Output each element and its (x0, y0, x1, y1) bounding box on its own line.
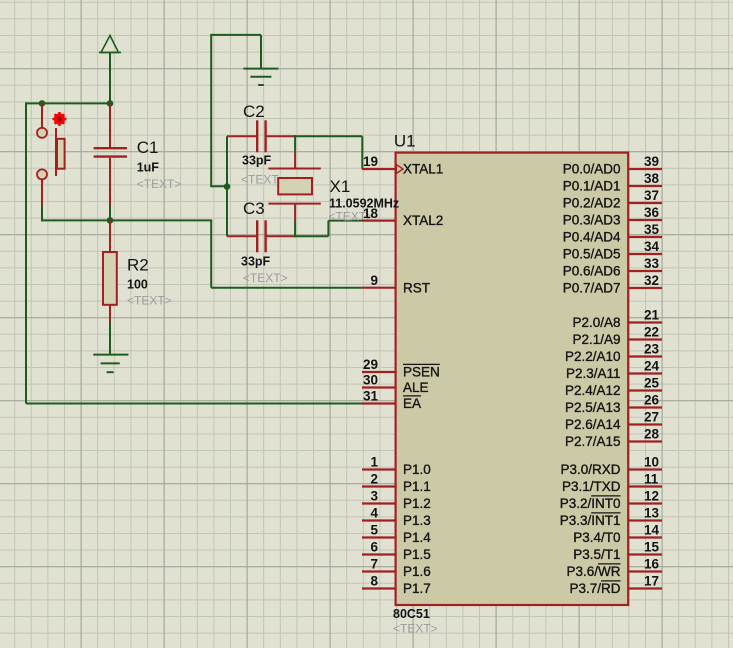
svg-text:14: 14 (644, 523, 660, 538)
svg-text:XTAL2: XTAL2 (403, 213, 443, 228)
svg-text:P0.2/AD2: P0.2/AD2 (563, 196, 621, 211)
svg-text:37: 37 (644, 188, 659, 203)
pin 27 stub (P2.6/A14) (628, 423, 662, 425)
svg-text:P3.1/TXD: P3.1/TXD (562, 479, 621, 494)
svg-text:31: 31 (363, 389, 379, 404)
svg-text:C1: C1 (137, 138, 159, 157)
pin 18 stub (XTAL2) (362, 220, 396, 222)
svg-text:P3.5/T1: P3.5/T1 (573, 547, 620, 562)
svg-text:P2.4/A12: P2.4/A12 (565, 383, 621, 398)
button contact bottom (37, 169, 47, 179)
wire left rail (EA to VCC) (25, 102, 27, 403)
power symbol VCC arrow (99, 36, 121, 104)
svg-text:P1.4: P1.4 (403, 530, 431, 545)
svg-text:RST: RST (403, 280, 430, 295)
pin 17 stub (P3.7/RD) (628, 587, 662, 589)
svg-text:11: 11 (644, 472, 659, 487)
pin 25 stub (P2.4/A12) (628, 389, 662, 391)
svg-text:P1.6: P1.6 (403, 564, 431, 579)
pin 19 stub (XTAL1) (362, 168, 396, 170)
wire rail to caps (211, 185, 228, 187)
button interactive marker (52, 112, 66, 126)
wire XTAL1 horizontal (294, 135, 362, 137)
ground symbol (R2) (93, 355, 128, 373)
svg-text:P1.7: P1.7 (403, 581, 431, 596)
svg-text:U1: U1 (394, 132, 416, 151)
svg-text:C2: C2 (243, 102, 265, 121)
pin 39 stub (P0.0/AD0) (628, 168, 662, 170)
svg-text:<TEXT>: <TEXT> (137, 177, 182, 191)
svg-text:P0.7/AD7: P0.7/AD7 (563, 281, 621, 296)
pin 19 clock arrow (396, 165, 403, 174)
pin 24 stub (P2.3/A11) (628, 372, 662, 374)
button actuator bar (55, 128, 57, 176)
svg-text:2: 2 (370, 472, 378, 487)
svg-text:P3.4/T0: P3.4/T0 (573, 530, 620, 545)
svg-text:33pF: 33pF (242, 154, 272, 168)
pin 26 stub (P2.5/A13) (628, 406, 662, 408)
pin 35 stub (P0.4/AD4) (628, 236, 662, 238)
capacitor C1 top lead (109, 103, 111, 147)
pin 31 stub (EA) (362, 402, 396, 404)
wire RST vertical (210, 220, 212, 287)
button top lead (41, 103, 43, 127)
svg-text:5: 5 (370, 523, 378, 538)
resistor R2 bottom lead (109, 305, 111, 321)
wire RST horizontal 2 (211, 287, 362, 289)
svg-text:15: 15 (644, 540, 660, 555)
pin 8 stub (P1.7) (362, 587, 396, 589)
pin 6 stub (P1.5) (362, 553, 396, 555)
svg-text:P0.4/AD4: P0.4/AD4 (563, 230, 621, 245)
pin 1 stub (P1.0) (362, 468, 396, 470)
pin 38 stub (P0.1/AD1) (628, 185, 662, 187)
capacitor C3 left lead (227, 235, 256, 237)
svg-text:<TEXT>: <TEXT> (393, 622, 438, 636)
node junction cap common (224, 183, 231, 190)
capacitor C2 left lead (227, 135, 256, 137)
svg-text:13: 13 (644, 506, 660, 521)
svg-text:P3.7/RD: P3.7/RD (569, 581, 620, 596)
svg-text:32: 32 (644, 273, 659, 288)
crystal X1 bottom plate (268, 203, 320, 205)
capacitor C3 right lead (266, 235, 295, 237)
wire XTAL2 vertical (327, 221, 329, 237)
svg-text:21: 21 (644, 308, 660, 323)
pin 12 stub (P3.2/INT0) (628, 502, 662, 504)
svg-text:23: 23 (644, 342, 660, 357)
svg-text:R2: R2 (127, 256, 149, 275)
pin 33 stub (P0.6/AD6) (628, 270, 662, 272)
pin 22 stub (P2.1/A9) (628, 338, 662, 340)
svg-text:33pF: 33pF (241, 255, 271, 269)
capacitor C2 right lead (266, 135, 295, 137)
svg-text:36: 36 (644, 205, 660, 220)
svg-text:8: 8 (370, 574, 378, 589)
ground symbol (top) (243, 69, 278, 85)
svg-text:P2.0/A8: P2.0/A8 (572, 315, 620, 330)
pin 13 stub (P3.3/INT1) (628, 519, 662, 521)
crystal X1 bottom pin (294, 204, 296, 221)
capacitor C1 plates (94, 148, 127, 156)
capacitor C3 plates (257, 220, 265, 252)
svg-text:18: 18 (363, 206, 379, 221)
svg-text:P2.3/A11: P2.3/A11 (566, 366, 621, 381)
svg-text:P1.1: P1.1 (403, 479, 431, 494)
svg-text:4: 4 (370, 506, 378, 521)
svg-text:17: 17 (644, 574, 659, 589)
svg-text:P3.6/WR: P3.6/WR (566, 564, 620, 579)
svg-text:30: 30 (363, 373, 378, 388)
svg-text:P0.3/AD3: P0.3/AD3 (563, 213, 621, 228)
svg-text:<TEXT>: <TEXT> (127, 294, 172, 308)
svg-text:XTAL1: XTAL1 (403, 162, 443, 177)
svg-text:P2.6/A14: P2.6/A14 (565, 417, 621, 432)
wire ground stub (260, 35, 262, 69)
pin 3 stub (P1.2) (362, 502, 396, 504)
wire C1 to RST net (109, 205, 111, 220)
svg-text:100: 100 (127, 278, 148, 292)
pin 10 stub (P3.0/RXD) (628, 468, 662, 470)
svg-text:P0.0/AD0: P0.0/AD0 (563, 162, 621, 177)
svg-text:22: 22 (644, 325, 659, 340)
capacitor C2 plates (257, 120, 265, 152)
svg-text:P3.3/INT1: P3.3/INT1 (560, 513, 621, 528)
wire crystal ground rail top (211, 34, 261, 36)
svg-text:3: 3 (370, 489, 378, 504)
pin 16 stub (P3.6/WR) (628, 570, 662, 572)
wire cap common vertical (226, 136, 228, 236)
svg-text:29: 29 (363, 357, 378, 372)
svg-text:P2.5/A13: P2.5/A13 (565, 400, 621, 415)
svg-text:P0.1/AD1: P0.1/AD1 (563, 179, 621, 194)
pin 21 stub (P2.0/A8) (628, 321, 662, 323)
svg-text:80C51: 80C51 (393, 607, 430, 621)
crystal X1 top plate (268, 168, 320, 170)
svg-text:C3: C3 (243, 199, 265, 218)
pin 29 stub (PSEN) (362, 371, 396, 373)
wire X1 bottom down (294, 221, 296, 237)
svg-text:P2.1/A9: P2.1/A9 (572, 332, 620, 347)
button contact top (37, 128, 47, 138)
svg-text:39: 39 (644, 154, 659, 169)
pin 34 stub (P0.5/AD5) (628, 253, 662, 255)
svg-text:P1.5: P1.5 (403, 547, 431, 562)
svg-text:33: 33 (644, 256, 660, 271)
pin 9 stub (RST) (362, 287, 396, 289)
svg-text:P3.2/INT0: P3.2/INT0 (560, 496, 621, 511)
svg-text:28: 28 (644, 427, 660, 442)
pin 2 stub (P1.1) (362, 485, 396, 487)
svg-text:7: 7 (370, 557, 378, 572)
svg-text:38: 38 (644, 171, 660, 186)
wire top rail VCC (25, 102, 111, 104)
svg-text:1: 1 (370, 455, 378, 470)
svg-text:P1.0: P1.0 (403, 462, 431, 477)
resistor R2 body (103, 252, 117, 305)
pin 36 stub (P0.3/AD3) (628, 219, 662, 221)
crystal X1 body (278, 178, 312, 194)
wire XTAL2 horizontal 2 (328, 220, 362, 222)
button bottom lead (41, 179, 43, 205)
wire XTAL2 horizontal 1 (294, 235, 328, 237)
svg-text:P1.3: P1.3 (403, 513, 431, 528)
svg-text:19: 19 (363, 154, 378, 169)
wire R2 to ground (109, 321, 111, 355)
capacitor C1 bottom lead (109, 158, 111, 205)
node junction C1-top (107, 100, 114, 107)
svg-text:34: 34 (644, 239, 660, 254)
svg-text:27: 27 (644, 410, 659, 425)
svg-text:26: 26 (644, 393, 660, 408)
U1 body 80C51 (396, 153, 629, 605)
svg-text:P0.5/AD5: P0.5/AD5 (563, 247, 621, 262)
svg-text:<TEXT>: <TEXT> (243, 271, 288, 285)
svg-text:10: 10 (644, 455, 659, 470)
pin 5 stub (P1.4) (362, 536, 396, 538)
svg-text:12: 12 (644, 489, 659, 504)
svg-text:P1.2: P1.2 (403, 496, 431, 511)
svg-text:9: 9 (370, 273, 378, 288)
wire crystal ground rail vertical (210, 34, 212, 187)
svg-text:24: 24 (644, 359, 660, 374)
button cap (57, 139, 65, 169)
svg-text:X1: X1 (330, 177, 351, 196)
svg-text:PSEN: PSEN (403, 365, 440, 380)
wire C2 node up (294, 135, 296, 151)
pin 30 stub (ALE) (362, 386, 396, 388)
resistor R2 top lead (109, 220, 111, 252)
crystal X1 top pin (294, 152, 296, 169)
svg-text:6: 6 (370, 540, 378, 555)
pin 37 stub (P0.2/AD2) (628, 202, 662, 204)
svg-text:EA: EA (403, 396, 421, 411)
wire EA horizontal (26, 403, 362, 405)
svg-text:16: 16 (644, 557, 660, 572)
pin 28 stub (P2.7/A15) (628, 440, 662, 442)
wire XTAL1 vertical (361, 136, 363, 169)
svg-text:ALE: ALE (403, 380, 429, 395)
pin 14 stub (P3.4/T0) (628, 536, 662, 538)
svg-text:P2.7/A15: P2.7/A15 (565, 434, 621, 449)
node junction button-top (39, 100, 46, 107)
svg-text:P3.0/RXD: P3.0/RXD (560, 462, 620, 477)
pin 32 stub (P0.7/AD7) (628, 287, 662, 289)
wire button-bottom down (41, 205, 43, 221)
pin 11 stub (P3.1/TXD) (628, 485, 662, 487)
wire RST horizontal 1 (41, 219, 212, 221)
pin 7 stub (P1.6) (362, 570, 396, 572)
svg-text:P2.2/A10: P2.2/A10 (565, 349, 621, 364)
node junction C1-bottom (107, 217, 114, 224)
pin 4 stub (P1.3) (362, 519, 396, 521)
svg-text:25: 25 (644, 376, 660, 391)
pin 15 stub (P3.5/T1) (628, 553, 662, 555)
svg-text:P0.6/AD6: P0.6/AD6 (563, 264, 621, 279)
svg-text:1uF: 1uF (137, 161, 160, 175)
svg-text:35: 35 (644, 222, 660, 237)
pin 23 stub (P2.2/A10) (628, 355, 662, 357)
